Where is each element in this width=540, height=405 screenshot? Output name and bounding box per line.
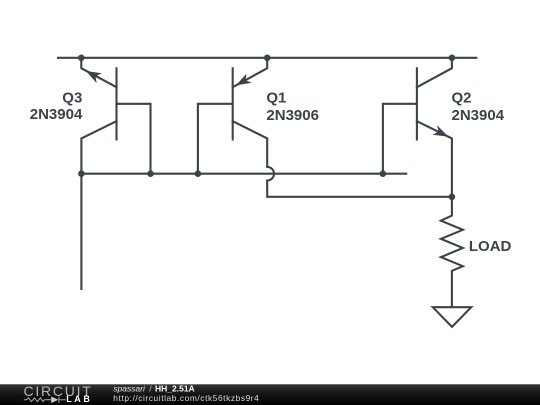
svg-text:2N3904: 2N3904 [452,107,505,124]
svg-text:Q3: Q3 [62,89,82,106]
svg-text:Q2: Q2 [452,89,472,106]
svg-text:spassari: spassari [113,384,146,394]
svg-text:Q1: Q1 [266,89,286,106]
svg-text:HH_2.51A: HH_2.51A [155,384,195,394]
svg-text:2N3904: 2N3904 [30,106,83,123]
svg-text:http://circuitlab.com/ctk56tkz: http://circuitlab.com/ctk56tkzbs9r4 [113,393,259,403]
svg-text:LOAD: LOAD [469,238,512,255]
svg-text:2N3906: 2N3906 [266,107,319,124]
svg-text:LAB: LAB [66,394,92,404]
